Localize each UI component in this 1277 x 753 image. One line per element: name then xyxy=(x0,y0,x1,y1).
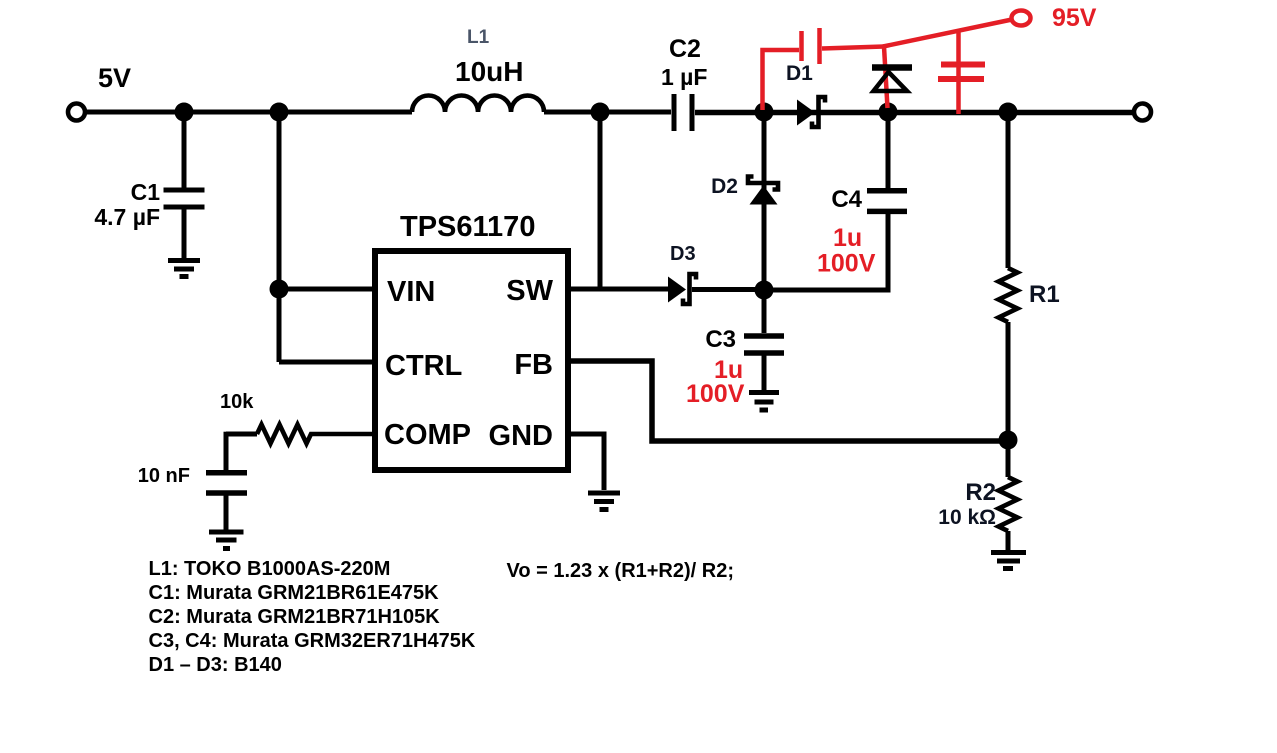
wire: red annotation riser from D1 anode xyxy=(763,50,800,110)
junction: FB node xyxy=(999,431,1018,450)
op-amp U1 TPS61170 box xyxy=(375,251,568,470)
svg-text:D1 – D3: B140: D1 – D3: B140 xyxy=(149,654,282,676)
svg-text:FB: FB xyxy=(514,349,553,381)
svg-text:C1: Murata GRM21BR61E475K: C1: Murata GRM21BR61E475K xyxy=(149,582,440,604)
wire: red diagonal to 95V terminal xyxy=(883,20,1012,47)
wire: red horizontal to peak node xyxy=(822,47,884,49)
junction: VIN node xyxy=(270,280,289,299)
svg-text:R1: R1 xyxy=(1029,281,1060,308)
diode D1 (schottky) xyxy=(797,97,825,127)
diode D2 (schottky, pointing up) xyxy=(748,112,778,290)
svg-text:D2: D2 xyxy=(711,175,738,198)
wire: SW column xyxy=(598,112,603,289)
capacitor C1 xyxy=(164,190,205,207)
wire: D3 cathode to node xyxy=(692,287,764,292)
terminal 95V (red) xyxy=(1012,11,1031,26)
junction: D1 anode node xyxy=(755,103,774,122)
svg-text:CTRL: CTRL xyxy=(385,350,462,382)
svg-text:SW: SW xyxy=(506,275,553,307)
ground: C3 xyxy=(749,393,779,411)
capacitor C4 xyxy=(764,112,907,290)
capacitor 10 nF xyxy=(206,473,247,493)
wire: to CTRL pin xyxy=(279,360,375,365)
wire: VIN/CTRL column xyxy=(277,112,282,362)
capacitor C3 xyxy=(744,290,784,390)
svg-text:D1: D1 xyxy=(786,62,813,85)
svg-text:10uH: 10uH xyxy=(455,56,523,87)
svg-text:10k: 10k xyxy=(220,391,254,413)
svg-text:L1: TOKO B1000AS-220M: L1: TOKO B1000AS-220M xyxy=(149,558,391,580)
ground: GND pin xyxy=(588,493,620,510)
wire: C1 top lead xyxy=(182,112,187,188)
svg-text:COMP: COMP xyxy=(384,419,471,451)
svg-text:C1: C1 xyxy=(131,179,161,205)
wire: R2 top lead xyxy=(1006,440,1011,477)
svg-text:D3: D3 xyxy=(670,243,696,265)
svg-text:C4: C4 xyxy=(831,186,862,213)
svg-text:100V: 100V xyxy=(686,380,745,408)
svg-text:10 kΩ: 10 kΩ xyxy=(938,506,996,529)
output terminal xyxy=(1134,104,1151,121)
resistor R2 xyxy=(999,477,1018,531)
wire: FB route xyxy=(568,361,1008,441)
ground: C1 xyxy=(168,261,200,277)
capacitor C2 xyxy=(674,94,692,131)
wire: 10k corner down to 10nF xyxy=(224,432,229,470)
junction: D1 cathode / C4 node xyxy=(879,103,898,122)
wire: R1 top lead xyxy=(1006,112,1011,268)
ground: R2 xyxy=(991,553,1026,569)
svg-text:C2: Murata GRM21BR71H105K: C2: Murata GRM21BR71H105K xyxy=(149,606,441,628)
wire: 10nF to ground xyxy=(224,495,229,530)
junction: VIN column tap xyxy=(270,103,289,122)
wire: GND pin lead xyxy=(568,434,604,490)
resistor R1 xyxy=(999,268,1018,322)
svg-text:C2: C2 xyxy=(669,35,701,63)
wire: input rail left xyxy=(85,110,412,115)
svg-text:R2: R2 xyxy=(965,479,996,506)
svg-text:C3, C4: Murata GRM32ER71H475K: C3, C4: Murata GRM32ER71H475K xyxy=(149,630,476,652)
diode D3 (schottky) xyxy=(668,274,696,304)
svg-text:L1: L1 xyxy=(467,27,490,48)
wire: rail C2 to output xyxy=(695,110,1134,116)
junction: C1 tap xyxy=(175,103,194,122)
junction: D2 anode / C3 node xyxy=(755,281,774,300)
svg-text:10 nF: 10 nF xyxy=(138,465,190,487)
diode (hand-drawn black, at peak node) xyxy=(872,68,912,92)
ground: 10nF xyxy=(209,532,244,549)
svg-text:4.7 µF: 4.7 µF xyxy=(94,204,160,230)
wire: red output cap branch xyxy=(956,31,961,115)
resistor 10k (COMP network) xyxy=(226,425,375,444)
wire: SW pin to D3 xyxy=(568,287,669,292)
svg-text:5V: 5V xyxy=(98,63,131,93)
svg-text:VIN: VIN xyxy=(387,276,435,308)
capacitor (red, series pump cap) xyxy=(802,28,820,64)
svg-text:1u: 1u xyxy=(833,224,862,252)
svg-text:C3: C3 xyxy=(705,326,736,353)
svg-text:TPS61170: TPS61170 xyxy=(400,211,535,243)
junction: SW column tap on rail xyxy=(591,103,610,122)
wire: R1 bottom lead xyxy=(1006,322,1011,440)
junction: output divider tap xyxy=(999,103,1018,122)
capacitor (red, output filter) xyxy=(938,65,985,80)
svg-text:GND: GND xyxy=(489,420,553,452)
wire: C1 bottom lead xyxy=(182,209,187,258)
wire: R2 bottom lead xyxy=(1006,531,1011,550)
svg-text:1 µF: 1 µF xyxy=(661,64,707,90)
wire: rail L1 to C2 xyxy=(544,110,671,115)
inductor L1 xyxy=(412,96,544,113)
svg-text:100V: 100V xyxy=(817,250,876,278)
wire: to VIN pin xyxy=(279,287,375,292)
input terminal (5V) xyxy=(68,104,85,121)
wire: red drop to D1 cathode node xyxy=(884,47,888,109)
svg-text:Vo = 1.23 x (R1+R2)/ R2;: Vo = 1.23 x (R1+R2)/ R2; xyxy=(507,560,735,582)
svg-text:95V: 95V xyxy=(1052,4,1097,32)
